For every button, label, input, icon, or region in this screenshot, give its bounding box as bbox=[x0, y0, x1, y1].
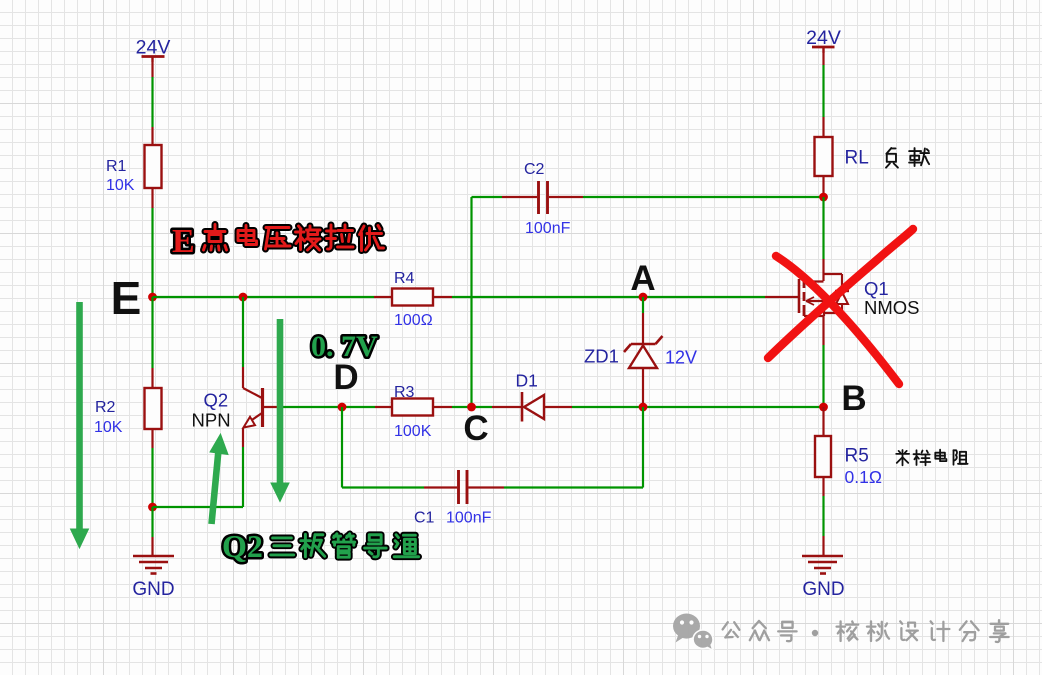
arrow down middle bbox=[277, 319, 284, 486]
svg-text:R4: R4 bbox=[394, 270, 415, 287]
pin RL bottom bbox=[822, 176, 824, 197]
red annotation text: E dian dianya bei la di bbox=[172, 223, 195, 260]
svg-text:Q2: Q2 bbox=[222, 528, 263, 564]
wire corner to C2 bbox=[472, 196, 503, 198]
wire up to ZD1 junction bbox=[642, 407, 644, 488]
power bar 24V right bbox=[812, 46, 835, 49]
resistor R3 100K bbox=[392, 399, 433, 416]
junction Q2 collector on E wire bbox=[239, 293, 248, 302]
wire to GND left bbox=[151, 507, 153, 537]
svg-text:ZD1: ZD1 bbox=[584, 346, 619, 367]
Q2 emitter arrow bbox=[244, 417, 256, 428]
pin R3 right bbox=[433, 406, 452, 408]
transistor Q2 NPN bbox=[242, 367, 244, 388]
wire 24V to R1 bbox=[151, 77, 153, 127]
svg-text:E: E bbox=[111, 272, 142, 324]
junction node A bbox=[639, 293, 648, 302]
svg-text:10K: 10K bbox=[94, 419, 123, 436]
wire R5 to GND right bbox=[822, 496, 824, 536]
wire Q2 base to R3 bbox=[281, 406, 375, 408]
svg-text:E: E bbox=[172, 223, 195, 260]
black text: fuzai (load) next to RL bbox=[886, 148, 929, 168]
svg-text:12V: 12V bbox=[665, 348, 697, 368]
pin from 24V right bbox=[822, 53, 824, 65]
pin R4 left bbox=[374, 296, 392, 298]
pin R1 bottom bbox=[151, 188, 153, 208]
power bar 24V left bbox=[142, 55, 165, 58]
svg-text:A: A bbox=[630, 259, 655, 298]
pin R1 top bbox=[151, 127, 153, 145]
wire R4 to A to Q1 gate bbox=[452, 296, 765, 298]
svg-text:C: C bbox=[463, 409, 488, 448]
pin R5 bottom bbox=[822, 477, 824, 496]
svg-text:Q1: Q1 bbox=[864, 278, 889, 299]
resistor R5 0.1ohm bbox=[815, 436, 831, 477]
wire 24V to RL bbox=[822, 65, 824, 117]
svg-text:100nF: 100nF bbox=[446, 510, 492, 527]
wire C1 to right branch bbox=[504, 486, 643, 488]
pin D1 cathode bbox=[492, 406, 521, 408]
svg-text:R1: R1 bbox=[106, 158, 127, 175]
junction left bottom bbox=[148, 503, 157, 512]
pin RL top bbox=[822, 117, 824, 137]
wire E wire down to Q2 collector bbox=[242, 297, 244, 367]
svg-text:100Ω: 100Ω bbox=[394, 312, 433, 329]
svg-text:R5: R5 bbox=[845, 446, 869, 467]
svg-text:C2: C2 bbox=[524, 161, 545, 178]
svg-text:NMOS: NMOS bbox=[864, 297, 920, 318]
pin R5 top bbox=[822, 407, 824, 436]
resistor RL load bbox=[815, 137, 833, 176]
capacitor C2 100nF bbox=[537, 181, 540, 214]
svg-text:Q2: Q2 bbox=[204, 390, 229, 411]
wire to C1 left bbox=[342, 486, 424, 488]
red cross stroke 2 bbox=[768, 229, 913, 358]
arrow down left rail bbox=[76, 302, 83, 532]
svg-text:B: B bbox=[841, 379, 866, 418]
ground GND right bbox=[802, 555, 843, 558]
svg-text:10K: 10K bbox=[106, 177, 135, 194]
wire vertical C2-corner down to node C bbox=[470, 197, 472, 407]
pin R2 top bbox=[151, 368, 153, 388]
wire R1 to node E bbox=[151, 208, 153, 297]
wire A to ZD1 bbox=[642, 297, 644, 313]
resistor R4 100ohm bbox=[392, 289, 433, 306]
svg-text:GND: GND bbox=[802, 579, 844, 600]
junction ZD1 bottom bbox=[639, 403, 648, 412]
svg-text:NPN: NPN bbox=[192, 410, 231, 431]
svg-text:100nF: 100nF bbox=[525, 220, 571, 237]
wire Q2 emitter down bbox=[242, 447, 244, 507]
svg-text:0.1Ω: 0.1Ω bbox=[845, 467, 882, 487]
pin from 24V left bbox=[151, 62, 153, 77]
svg-text:RL: RL bbox=[845, 148, 869, 169]
wire R3 to D1 bbox=[452, 406, 492, 408]
arrow up at Q2 bbox=[212, 450, 219, 524]
red cross stroke 1 bbox=[776, 256, 899, 384]
pin C2 left bbox=[502, 196, 537, 198]
resistor R1 10K bbox=[145, 145, 162, 188]
svg-text:R2: R2 bbox=[95, 399, 116, 416]
wire D1 to node B bbox=[572, 406, 823, 408]
wire C2 to RL bottom node bbox=[583, 196, 823, 198]
watermark text: gongzhonghao hetao sheji fenxiang bbox=[723, 620, 1009, 642]
capacitor C1 100nF bbox=[457, 470, 460, 504]
zener diode ZD1 12V bbox=[642, 313, 644, 344]
diode D1 bbox=[521, 392, 524, 422]
pin C2 right bbox=[549, 196, 583, 198]
wire Q1 source to node B bbox=[822, 345, 824, 407]
watermark wechat icon bbox=[673, 614, 713, 651]
svg-text:100K: 100K bbox=[394, 423, 432, 440]
svg-text:D1: D1 bbox=[516, 371, 538, 391]
pin GND right bbox=[822, 536, 824, 556]
wire E to R4 bbox=[153, 296, 375, 298]
junction node B bbox=[819, 403, 828, 412]
wire emitter to left rail bbox=[153, 506, 244, 508]
ground GND left bbox=[133, 555, 174, 558]
black text: caiyang dianzu (sampling resistor) next to R5 bbox=[896, 450, 967, 466]
Q1 arrow bbox=[806, 297, 814, 305]
junction node E bbox=[148, 293, 157, 302]
transistor Q1 NMOS bbox=[822, 259, 824, 281]
wire R2 to ground node bbox=[151, 448, 153, 507]
svg-text:C1: C1 bbox=[414, 510, 435, 527]
svg-text:GND: GND bbox=[132, 579, 174, 600]
svg-text:D: D bbox=[333, 358, 358, 397]
pin D1 anode bbox=[544, 406, 572, 408]
junction RL bottom bbox=[819, 193, 828, 202]
svg-text:0. 7V: 0. 7V bbox=[311, 330, 378, 363]
pin C1 left bbox=[424, 486, 457, 488]
junction node D bbox=[338, 403, 347, 412]
resistor R2 10K bbox=[145, 388, 162, 429]
pin C1 right bbox=[469, 486, 505, 488]
junction node C bbox=[467, 403, 476, 412]
wire E to R2 bbox=[151, 297, 153, 368]
pin R3 left bbox=[375, 406, 392, 408]
wire D down to C1 bbox=[341, 407, 343, 488]
wire RL to Q1 drain bbox=[822, 197, 824, 259]
svg-text:R3: R3 bbox=[394, 384, 415, 401]
pin R4 right bbox=[433, 296, 452, 298]
pin GND left bbox=[151, 537, 153, 556]
pin R2 bottom bbox=[151, 429, 153, 448]
